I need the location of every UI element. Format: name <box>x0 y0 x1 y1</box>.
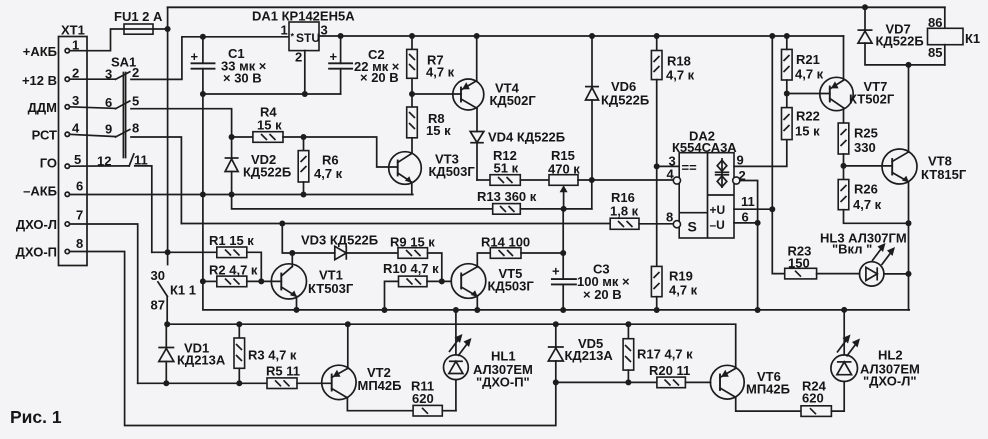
resistor R19 <box>651 166 697 310</box>
svg-text:6: 6 <box>76 179 83 194</box>
comparator DA2 <box>666 129 755 239</box>
resistor R10 <box>383 261 451 310</box>
svg-text:2: 2 <box>72 66 79 81</box>
transistor VT2 <box>322 324 413 411</box>
resistor R6 <box>298 137 342 195</box>
svg-text:КД522Б: КД522Б <box>876 34 924 49</box>
wire fuse output to top bus <box>153 7 168 29</box>
LED HL2 <box>831 310 920 389</box>
zener pair symbol <box>721 158 723 188</box>
relay contact K1.1 <box>151 268 197 324</box>
svg-text:7: 7 <box>76 208 83 223</box>
svg-text:R13 360 к: R13 360 к <box>477 189 537 204</box>
svg-text:ДХО-Л: ДХО-Л <box>16 217 57 232</box>
svg-text:FU1 2 А: FU1 2 А <box>114 9 163 24</box>
resistor R24 <box>801 379 844 417</box>
svg-text:К1: К1 <box>965 31 980 46</box>
svg-text:ДДМ: ДДМ <box>28 100 57 115</box>
svg-text:ГО: ГО <box>40 156 57 171</box>
svg-text:150: 150 <box>788 256 810 271</box>
transistor VT1 <box>271 253 354 310</box>
wire SA1 contact 2 to DA1 input <box>131 37 289 80</box>
wire rail 324 (DRL supply) <box>167 324 736 368</box>
svg-text:15 к: 15 к <box>257 118 282 133</box>
svg-text:R1 15 к: R1 15 к <box>209 233 254 248</box>
potentiometer R15 <box>548 148 674 209</box>
wire VD3 branch from strobe line <box>282 224 335 254</box>
resistor R22 <box>782 108 821 140</box>
wire pin1 to fuse <box>70 29 125 51</box>
svg-text:XT1: XT1 <box>61 23 85 38</box>
svg-text:VD3 КД522Б: VD3 КД522Б <box>301 233 378 248</box>
resistor R17 <box>623 324 693 382</box>
svg-text:× 20 В: × 20 В <box>583 287 622 302</box>
svg-text:КД503Г: КД503Г <box>488 279 535 294</box>
svg-text:–U: –U <box>710 218 725 232</box>
svg-text:330: 330 <box>854 140 876 155</box>
svg-text:КТ503Г: КТ503Г <box>308 281 354 296</box>
wire pin8 ДХО-П down to bottom rail <box>70 252 556 426</box>
svg-text:4,7 к: 4,7 к <box>426 65 455 80</box>
resistor R21 <box>782 36 824 108</box>
transistor VT8 <box>882 65 967 223</box>
wire R1 feed line <box>152 251 217 253</box>
svg-text:2: 2 <box>295 50 302 65</box>
resistor R4 <box>232 105 304 143</box>
resistor R1 <box>209 233 261 281</box>
svg-text:КД213А: КД213А <box>177 353 226 368</box>
wire pin4 to SA1 contact 9 <box>70 134 116 136</box>
switch arm SA1.4 <box>129 154 134 166</box>
relay coil K1 <box>928 7 981 65</box>
capacitor C3 <box>552 209 630 310</box>
capacitor C2 <box>329 36 400 94</box>
wire VD4 to R12 row <box>477 179 490 181</box>
wire +АКБ column down to contact K1.1 <box>167 29 169 265</box>
diode VD7 <box>858 7 945 65</box>
wire R13 line <box>232 195 493 209</box>
svg-text:+АКБ: +АКБ <box>23 44 57 59</box>
diode VD1 <box>158 324 226 383</box>
wire +9V column to R23 <box>772 36 784 274</box>
svg-text:R3 4,7 к: R3 4,7 к <box>248 348 297 363</box>
svg-text:+: + <box>330 49 338 64</box>
svg-text:× 30 В: × 30 В <box>223 71 262 86</box>
svg-text:4,7 к: 4,7 к <box>669 283 698 298</box>
resistor R8 <box>407 94 451 153</box>
svg-text:КД522Б: КД522Б <box>243 165 291 180</box>
transistor VT6 <box>710 365 801 411</box>
junction fuse node <box>165 26 171 32</box>
wire DA1 output rail 9V <box>319 35 843 37</box>
wire pin5 to SA1 contact 12 <box>70 165 130 167</box>
wire VT8 base <box>844 165 893 167</box>
resistor R5 <box>266 364 332 389</box>
svg-text:+12 В: +12 В <box>22 73 57 88</box>
wire SA1 contact 8 down to R16 line <box>131 137 181 224</box>
regulator DA1 <box>252 9 355 65</box>
svg-text:4,7 к: 4,7 к <box>853 197 882 212</box>
resistor R26 <box>838 166 908 223</box>
svg-text:R26: R26 <box>854 182 878 197</box>
svg-text:"Вкл ": "Вкл " <box>832 242 872 257</box>
svg-text:HL2: HL2 <box>878 348 903 363</box>
svg-text:КД502Г: КД502Г <box>490 93 537 108</box>
svg-text:5: 5 <box>132 94 139 109</box>
svg-text:–АКБ: –АКБ <box>23 184 57 199</box>
capacitor C1 <box>191 37 267 94</box>
wire pin3 to SA1 contact 6 <box>70 107 116 109</box>
svg-text:R10 4,7 к: R10 4,7 к <box>383 261 439 276</box>
junction dots −АКБ rail <box>200 192 206 198</box>
svg-text:30: 30 <box>151 268 165 283</box>
svg-text:15 к: 15 к <box>426 123 451 138</box>
svg-text:R20 11: R20 11 <box>649 363 690 378</box>
svg-text:КД522Б: КД522Б <box>601 93 649 108</box>
junction DA1 input / C1 <box>200 34 206 40</box>
svg-text:R21: R21 <box>796 52 820 67</box>
junction 87 to rail <box>164 321 170 327</box>
svg-text:STU: STU <box>296 31 320 45</box>
wire VT7 base <box>787 93 830 95</box>
resistor R14 <box>481 235 563 259</box>
transistor VT5 <box>451 253 534 310</box>
junction R1 feed / +АКБ column <box>165 249 171 255</box>
svg-text:КД213А: КД213А <box>565 348 614 363</box>
svg-text:8: 8 <box>76 236 83 251</box>
svg-text:2: 2 <box>132 65 139 80</box>
wire pin2 to SA1 contact 3 <box>70 78 116 80</box>
svg-text:9: 9 <box>737 153 744 168</box>
fuse FU1 <box>114 9 163 34</box>
svg-text:КД503Г: КД503Г <box>429 164 476 179</box>
svg-text:R5 11: R5 11 <box>266 364 300 379</box>
resistor R16 <box>610 190 674 229</box>
svg-text:4: 4 <box>667 167 675 182</box>
svg-text:15 к: 15 к <box>795 124 820 139</box>
wire DA2 pin11 supply <box>734 208 772 210</box>
switch arm SA1.2 <box>116 101 130 109</box>
resistor R7 <box>407 36 455 94</box>
resistor R20 <box>649 363 711 388</box>
svg-text:8: 8 <box>666 210 673 225</box>
svg-text:КТ815Г: КТ815Г <box>921 167 967 182</box>
svg-text:S: S <box>688 219 697 235</box>
svg-text:8: 8 <box>132 121 139 136</box>
wire ground column <box>203 94 909 310</box>
svg-text:470 к: 470 к <box>548 162 580 177</box>
svg-text:5: 5 <box>74 152 81 167</box>
LED HL3 <box>820 231 909 287</box>
wire top bus +12V <box>168 6 945 8</box>
svg-text:РСТ: РСТ <box>32 128 57 143</box>
connector XT1 <box>59 23 88 266</box>
switch arm SA1.3 <box>116 130 130 138</box>
wire R7/R8 node to VT4 base <box>412 93 461 95</box>
svg-text:R2 4,7 к: R2 4,7 к <box>209 263 258 278</box>
svg-text:"ДХО-П": "ДХО-П" <box>476 375 530 390</box>
wire pin7 ДХО-Л down <box>70 224 138 383</box>
diode VD3 <box>301 233 398 260</box>
svg-text:МП42Б: МП42Б <box>358 378 402 393</box>
wire pin6 −АКБ rail <box>70 194 413 196</box>
wire DA1 ground rail <box>203 93 341 95</box>
resistor R2 <box>203 263 281 287</box>
svg-text:R25: R25 <box>854 126 878 141</box>
wire SA1 contact 5 to R4 node <box>131 109 232 137</box>
LED HL1 <box>444 310 533 411</box>
wire DA2 pin2 to pin6 <box>740 181 758 223</box>
wire SA1 contact 11 down to K1 contact <box>135 166 152 252</box>
svg-text:86: 86 <box>928 15 942 30</box>
wire VT8 emitter to ground rail <box>908 223 910 310</box>
wire DA2 pin9 to R22 <box>734 140 787 167</box>
svg-text:R14 100: R14 100 <box>481 235 530 250</box>
svg-text:4: 4 <box>72 121 80 136</box>
svg-text:VD4 КД522Б: VD4 КД522Б <box>488 130 565 145</box>
svg-text:620: 620 <box>412 391 434 406</box>
wire DA2 pin3 <box>657 165 680 167</box>
transistor VT7 <box>820 36 895 111</box>
svg-text:1,8 к: 1,8 к <box>610 204 639 219</box>
wire DA1 pin2 <box>304 51 306 94</box>
svg-text:R19: R19 <box>669 269 693 284</box>
svg-text:==: == <box>682 160 698 175</box>
svg-text:Рис. 1: Рис. 1 <box>10 407 62 427</box>
svg-text:КТ502Г: КТ502Г <box>849 92 895 107</box>
svg-text:+: + <box>552 264 560 279</box>
svg-text:87: 87 <box>151 298 165 313</box>
svg-text:1: 1 <box>281 23 288 38</box>
resistor R13 <box>477 189 592 214</box>
resistor R18 <box>651 36 694 166</box>
svg-text:85: 85 <box>928 45 942 60</box>
switch arm SA1.1 <box>116 72 130 80</box>
resistor R9 <box>390 235 442 282</box>
resistor R12 <box>490 148 549 185</box>
diode VD6 <box>585 36 649 180</box>
diode VD5 <box>548 324 614 382</box>
svg-text:*: * <box>291 32 295 42</box>
svg-text:11: 11 <box>741 194 755 209</box>
svg-text:К1 1: К1 1 <box>170 283 196 298</box>
svg-text:"ДХО-Л": "ДХО-Л" <box>863 374 917 389</box>
wire R4 node to VT3 base <box>304 137 398 167</box>
wire DA2 pin6 column to ground rail <box>734 223 758 310</box>
svg-text:+U: +U <box>710 203 726 217</box>
svg-text:ДХО-П: ДХО-П <box>16 245 57 260</box>
svg-text:R18: R18 <box>667 54 691 69</box>
diode VD2 <box>225 137 292 195</box>
svg-text:51 к: 51 к <box>494 161 519 176</box>
svg-text:R22: R22 <box>796 109 820 124</box>
svg-text:4,7 к: 4,7 к <box>795 67 824 82</box>
svg-text:4,7 к: 4,7 к <box>314 166 343 181</box>
resistor R11 <box>411 379 456 417</box>
svg-text:+: + <box>191 49 199 64</box>
svg-text:DA1 КР142ЕН5А: DA1 КР142ЕН5А <box>252 9 355 24</box>
transistor VT3 <box>389 152 476 195</box>
resistor R25 <box>838 108 878 166</box>
wire ДХО-Л line with R5 to VT2 base <box>138 382 267 384</box>
svg-text:620: 620 <box>802 391 824 406</box>
svg-text:4,7 к: 4,7 к <box>666 68 695 83</box>
svg-text:R17 4,7 к: R17 4,7 к <box>637 347 693 362</box>
svg-text:3: 3 <box>72 93 79 108</box>
svg-text:МП42Б: МП42Б <box>746 382 790 397</box>
wire strobe line to R16 <box>181 223 610 225</box>
switch SA1 <box>97 55 148 169</box>
wire wiper node to pin4 line <box>591 180 593 209</box>
resistor R3 <box>234 324 297 383</box>
svg-text:9: 9 <box>105 122 112 137</box>
svg-text:× 20 В: × 20 В <box>360 70 399 85</box>
wire VD5 node to R20 <box>556 381 657 383</box>
svg-text:R9 15 к: R9 15 к <box>390 235 435 250</box>
resistor R23 <box>785 244 860 279</box>
transistor VT4 <box>453 36 537 110</box>
diode VD4 <box>470 108 565 180</box>
